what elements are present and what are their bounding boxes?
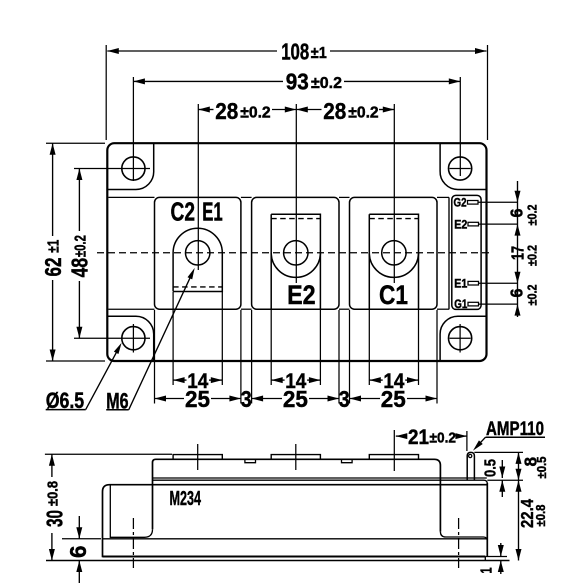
svg-text:±0.2: ±0.2 <box>72 235 89 257</box>
label C2 <box>171 199 196 227</box>
corner ear bottom-left <box>108 316 154 360</box>
svg-text:6: 6 <box>65 546 91 559</box>
label AMP110 <box>473 418 545 451</box>
lid skirt lines <box>153 478 488 484</box>
hole center marks <box>133 169 470 353</box>
svg-text:±0.2: ±0.2 <box>311 75 342 92</box>
dim 22.4 <box>516 480 549 560</box>
aux labels <box>454 197 468 311</box>
case right edge <box>486 483 488 557</box>
svg-text:6: 6 <box>506 208 526 217</box>
dim 6 side <box>62 516 101 583</box>
svg-text:48: 48 <box>67 258 93 278</box>
svg-text:±0.5: ±0.5 <box>534 457 549 479</box>
svg-text:E2: E2 <box>287 280 316 310</box>
aux pins <box>468 201 479 306</box>
svg-text:25: 25 <box>283 386 308 412</box>
svg-text:±1: ±1 <box>46 240 63 253</box>
svg-text:62: 62 <box>40 258 66 277</box>
dim 28 left <box>198 98 296 124</box>
module outline <box>107 143 486 361</box>
AMP110 pin <box>467 452 474 480</box>
ext lines 108 <box>106 45 487 140</box>
svg-text:25: 25 <box>381 386 406 412</box>
DIMENSIONS TOP <box>40 38 540 413</box>
svg-text:E1: E1 <box>454 278 468 290</box>
svg-text:25: 25 <box>185 386 210 412</box>
svg-text:±0.2: ±0.2 <box>525 245 540 266</box>
svg-text:108: 108 <box>281 38 309 64</box>
label E2 <box>287 280 316 310</box>
aux terminal box <box>452 195 481 309</box>
svg-text:±0.2: ±0.2 <box>240 104 271 121</box>
terminal T2 E2 <box>271 214 320 309</box>
dim 1 <box>479 543 508 574</box>
label M6 <box>106 268 195 413</box>
svg-text:E2: E2 <box>454 220 467 232</box>
right pocket <box>440 532 487 542</box>
dim 0.5 <box>483 459 506 497</box>
svg-text:±1: ±1 <box>311 45 327 62</box>
svg-text:28: 28 <box>215 98 238 124</box>
left pocket <box>110 485 152 538</box>
svg-text:±0.8: ±0.8 <box>533 505 548 527</box>
terminal T3 C1 <box>369 214 418 309</box>
label E1 <box>202 199 223 227</box>
dim 8 <box>474 452 549 480</box>
dim 14 x3 <box>173 370 418 393</box>
horizontal centerline <box>97 252 492 254</box>
svg-text:±0.2: ±0.2 <box>525 205 540 226</box>
svg-text:C2: C2 <box>171 199 196 227</box>
label M234 <box>170 488 202 510</box>
svg-text:21: 21 <box>408 426 429 449</box>
corner ear top-left <box>108 144 154 190</box>
svg-text:1: 1 <box>479 567 496 573</box>
svg-text:30: 30 <box>42 510 68 527</box>
svg-text:M234: M234 <box>170 488 202 510</box>
ext lines 62 <box>46 143 105 361</box>
lid ledge lines <box>108 197 449 309</box>
aux wall <box>448 197 450 309</box>
svg-text:6: 6 <box>506 288 526 297</box>
svg-text:3: 3 <box>339 386 350 412</box>
dim 62 <box>40 143 66 361</box>
dim 28 right <box>296 98 394 124</box>
TOPVIEW <box>97 104 492 361</box>
svg-text:93: 93 <box>286 69 309 95</box>
svg-text:±0.2: ±0.2 <box>525 285 540 306</box>
ext lines 93 <box>133 77 460 181</box>
side terminal centerlines <box>198 430 395 471</box>
svg-text:±0.2: ±0.2 <box>430 429 457 446</box>
left flange <box>103 485 488 558</box>
terminal T1 C2/E1 <box>173 228 222 291</box>
terminal covers on top <box>173 455 418 463</box>
corner ear bottom-right <box>440 316 486 360</box>
svg-text:0.5: 0.5 <box>483 459 500 477</box>
ext lines 48 <box>74 169 150 339</box>
aux dim column <box>506 181 539 317</box>
svg-text:E1: E1 <box>202 199 223 227</box>
dim 93 <box>133 69 460 95</box>
svg-text:G1: G1 <box>454 299 468 311</box>
baseplate <box>46 539 510 561</box>
svg-text:±0.2: ±0.2 <box>348 104 379 121</box>
svg-text:3: 3 <box>241 386 252 412</box>
dim 30 <box>42 454 172 560</box>
case upper body outline <box>153 459 441 531</box>
svg-text:C1: C1 <box>379 280 408 310</box>
corner ear top-right <box>440 144 486 190</box>
svg-text:28: 28 <box>323 98 346 124</box>
terminal section boxes <box>155 197 438 309</box>
dim 48 <box>67 169 93 339</box>
svg-text:G2: G2 <box>454 197 467 209</box>
dim 108 <box>107 38 486 64</box>
dim 25-3-25-3-25 <box>155 386 438 412</box>
svg-text:±0.8: ±0.8 <box>44 481 61 506</box>
dim 21 <box>396 426 467 451</box>
terminal centerlines <box>198 104 394 283</box>
bottom ext lines <box>155 292 438 404</box>
mounting holes <box>122 157 472 350</box>
label C1 <box>379 280 408 310</box>
label dia 6.5 <box>46 343 122 413</box>
aux pin leaders <box>479 202 518 304</box>
side mounting centerlines <box>133 518 458 568</box>
